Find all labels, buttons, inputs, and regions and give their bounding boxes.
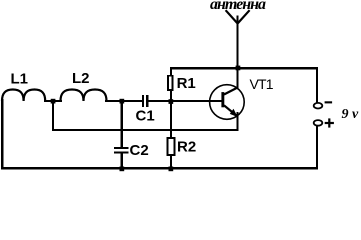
svg-text:R2: R2: [177, 139, 196, 156]
minus sign: [325, 101, 333, 103]
svg-text:C2: C2: [130, 142, 149, 159]
svg-text:L1: L1: [11, 70, 29, 87]
wire base rail segment L1 to L2: [44, 100, 62, 102]
wire emitter vertical: [237, 112, 239, 131]
antenna symbol: [226, 10, 250, 23]
battery terminal plus circle: [314, 120, 323, 126]
wire middle horizontal: [52, 129, 239, 131]
wire collector vertical: [237, 68, 239, 88]
svg-text:9 v: 9 v: [342, 107, 360, 122]
capacitor C2: [114, 147, 129, 154]
wire C2 vertical upper: [121, 100, 123, 147]
resistor R2: [168, 138, 175, 155]
resistor R1: [168, 76, 173, 90]
transistor VT1: [210, 85, 245, 120]
node R2-ground junction dot: [169, 167, 174, 172]
wire antenna vertical: [237, 16, 239, 69]
wire divider vertical R1-R2: [170, 91, 172, 137]
wire base rail segment C1 to base: [148, 100, 222, 102]
svg-text:антенна: антенна: [210, 0, 266, 13]
wire right rail upper: [316, 67, 318, 103]
svg-text:R1: R1: [177, 75, 196, 92]
wire right rail lower: [316, 126, 318, 170]
inductor L2: [61, 90, 107, 102]
node collector-antenna junction dot: [236, 66, 241, 71]
inductor L1: [2, 90, 45, 102]
plus sign: [325, 118, 334, 127]
wire top rail: [170, 67, 318, 69]
node A junction dot: [51, 99, 56, 104]
node B junction dot: [120, 99, 125, 104]
svg-text:L2: L2: [72, 70, 90, 87]
wire node A vertical: [52, 100, 54, 131]
capacitor C1: [142, 95, 149, 107]
svg-text:C1: C1: [136, 107, 155, 124]
wire C2 vertical lower: [121, 153, 123, 168]
svg-text:VT1: VT1: [250, 76, 274, 92]
wire R1 top lead: [170, 67, 172, 76]
node base-divider junction dot: [169, 99, 174, 104]
wire bottom rail: [1, 167, 318, 170]
wire base rail segment L2 to C1: [105, 100, 142, 102]
wire R2 bottom lead: [170, 156, 172, 168]
node C2-ground junction dot: [120, 167, 125, 172]
wire left vertical: [1, 99, 4, 169]
battery terminal minus circle: [314, 103, 323, 109]
